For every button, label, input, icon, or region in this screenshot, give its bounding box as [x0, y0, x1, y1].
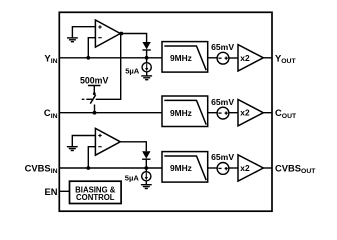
amplifier x2 (CVBS channel): [238, 155, 263, 181]
wire U2 - input feedback to CVBS_IN line: [88, 147, 95, 168]
wire Y_IN line: [59, 57, 162, 59]
wire C_IN line: [59, 112, 162, 114]
wire EN pin to biasing block: [59, 190, 69, 192]
wire amp to C_OUT pin: [263, 112, 272, 114]
wire CVBS_IN line: [59, 167, 162, 169]
svg-text:x2: x2: [240, 163, 250, 173]
filter block 9MHz (C channel): [162, 96, 208, 127]
svg-text:5µA: 5µA: [125, 173, 140, 182]
svg-text:EN: EN: [44, 186, 57, 197]
svg-text:9MHz: 9MHz: [170, 163, 192, 173]
outer block boundary: [59, 12, 272, 211]
summer node 65mV (Y channel): [217, 52, 229, 64]
500mV reference terminal: [88, 86, 101, 96]
wire U1 output to diode D1: [120, 34, 146, 43]
wire amp to Y_OUT pin: [263, 57, 272, 59]
ground (U2 + input): [67, 147, 78, 151]
block BIASING & CONTROL: [70, 181, 122, 203]
wire summer to amp (C): [229, 112, 238, 114]
wire amp to CVBS_OUT pin: [263, 167, 272, 169]
svg-text:65mV: 65mV: [211, 42, 234, 52]
wire 9MHz to summer (Y): [208, 57, 217, 59]
node U1 feedback tap on Y_IN: [86, 56, 90, 60]
wire U1 + input to ground: [72, 27, 95, 38]
wire 9MHz to summer (C): [208, 112, 217, 114]
amplifier x2 (C channel): [238, 100, 263, 126]
node D2 junction on CVBS_IN line: [144, 166, 148, 170]
wire junction to current source I1: [146, 58, 148, 63]
wire switch common to C_IN line: [94, 105, 96, 113]
svg-text:x2: x2: [240, 108, 250, 118]
svg-text:65mV: 65mV: [211, 152, 234, 162]
svg-text:9MHz: 9MHz: [170, 108, 192, 118]
summer node 65mV (C channel): [217, 107, 229, 119]
filter block 9MHz (Y channel): [162, 42, 208, 73]
node D1 junction on Y_IN line: [145, 56, 149, 60]
wire dashed stub left of switch: [82, 98, 85, 100]
switch SW1 arm: [90, 95, 95, 104]
current source I2 (5uA): [142, 172, 151, 185]
svg-text:x2: x2: [240, 53, 250, 63]
ground (U1 + input): [67, 38, 78, 42]
current source I1 (5uA): [142, 63, 151, 76]
wire U2 + input to ground: [72, 136, 95, 147]
diode D2 (CVBS clamp): [142, 151, 150, 168]
svg-text:65mV: 65mV: [211, 97, 234, 107]
op-amp U1 (Y clamp amp): [95, 20, 120, 47]
wire 9MHz to summer (CVBS): [208, 167, 217, 169]
ground (I1): [141, 76, 152, 80]
svg-text:9MHz: 9MHz: [170, 53, 192, 63]
wire switch to U1 output node: [96, 34, 121, 100]
amplifier x2 (Y channel): [238, 45, 263, 71]
wire junction to current source I2: [145, 168, 147, 172]
node switch tap on C_IN: [93, 111, 97, 115]
node U2 feedback tap on CVBS_IN: [86, 166, 90, 170]
filter block 9MHz (CVBS channel): [162, 152, 208, 183]
svg-text:5µA: 5µA: [125, 67, 140, 76]
svg-text:500mV: 500mV: [80, 75, 108, 85]
wire summer to amp (CVBS): [229, 167, 238, 169]
node U1 output: [119, 32, 123, 36]
wire summer to amp (Y): [229, 57, 238, 59]
svg-text:CONTROL: CONTROL: [76, 193, 115, 202]
diode D1 (Y clamp): [142, 42, 150, 58]
ground (I2): [141, 185, 152, 189]
summer node 65mV (CVBS channel): [217, 163, 229, 175]
wire U2 output to diode D2: [120, 142, 146, 151]
op-amp U2 (CVBS clamp amp): [95, 128, 120, 155]
wire U1 - input feedback to Y_IN line: [88, 38, 95, 58]
